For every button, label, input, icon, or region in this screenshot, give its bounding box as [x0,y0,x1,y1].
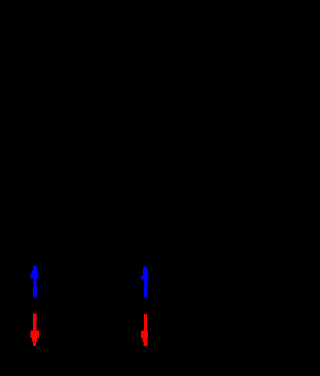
force arrow F1-up (blue, left point) [30,265,38,297]
force arrow F2-up (blue, right point) [141,266,149,297]
force arrow F2-down (red, right point) [141,314,148,346]
force arrow F1-down (red, left point) [31,314,39,346]
